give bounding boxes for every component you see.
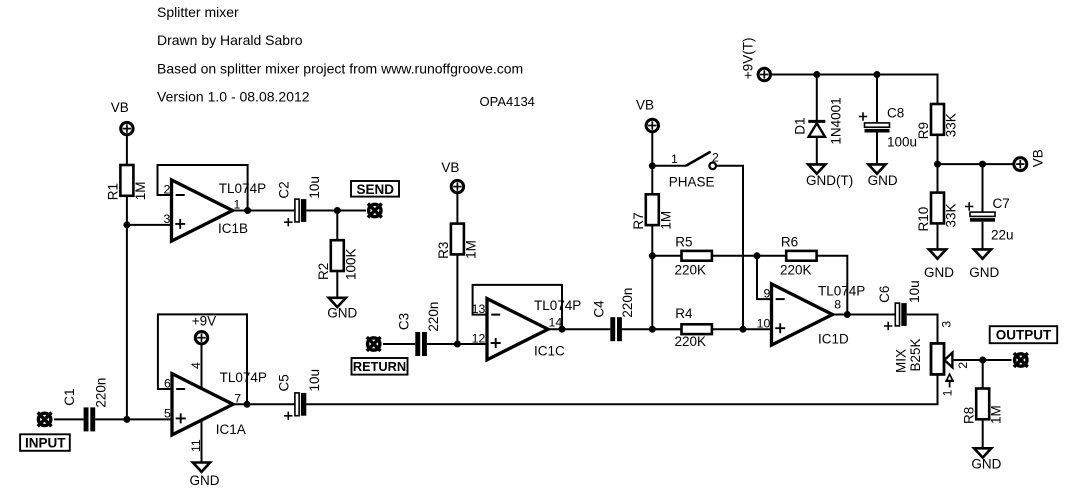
svg-text:+9V(T): +9V(T) xyxy=(741,38,756,80)
svg-text:SEND: SEND xyxy=(356,182,394,197)
plus mark C5 xyxy=(284,412,292,420)
svg-text:TL074P: TL074P xyxy=(219,181,266,196)
ground (C8) xyxy=(868,164,885,173)
svg-text:10u: 10u xyxy=(307,176,322,199)
svg-text:100u: 100u xyxy=(887,134,917,149)
wire R1 bottom to node xyxy=(126,196,128,225)
svg-text:2: 2 xyxy=(956,362,970,369)
wire IC1B output xyxy=(233,210,297,212)
junction R9/R10/VB xyxy=(934,161,941,168)
wire IC1C output to C4 xyxy=(548,328,610,330)
svg-text:GND: GND xyxy=(969,265,999,280)
wire to switch pin 1 xyxy=(652,165,686,167)
svg-text:Based on splitter mixer projec: Based on splitter mixer project from www… xyxy=(157,61,523,77)
wire IC1B feedback loop xyxy=(158,165,248,211)
junction IC1C output xyxy=(559,326,566,333)
svg-text:33K: 33K xyxy=(944,203,959,227)
capacitor C5 xyxy=(295,393,306,416)
resistor R9 xyxy=(931,104,944,135)
svg-text:10u: 10u xyxy=(307,369,322,392)
junction IC1B output xyxy=(244,207,251,214)
wire R4 to IC1D pin 10 xyxy=(712,328,773,330)
wire R9 to VB node xyxy=(937,135,939,164)
svg-text:1M: 1M xyxy=(989,405,1004,424)
svg-text:C8: C8 xyxy=(887,106,904,121)
potentiometer MIX B25K xyxy=(931,343,944,374)
svg-text:1: 1 xyxy=(671,152,678,166)
power +9V (IC1A pin 4) xyxy=(195,332,207,344)
svg-text:R6: R6 xyxy=(781,234,798,249)
svg-text:5: 5 xyxy=(164,407,171,421)
power +9V(T) xyxy=(758,68,770,80)
wire C1 to IC1A pin 5 xyxy=(95,418,172,420)
power VB (phase column) xyxy=(646,119,658,131)
resistor R2 xyxy=(331,240,344,271)
wire VB node to R10 xyxy=(937,164,939,193)
junction C4/R4/VB column xyxy=(649,326,656,333)
label box RETURN xyxy=(352,358,408,375)
svg-text:220K: 220K xyxy=(675,334,707,349)
junction VB/switch/R7 xyxy=(649,162,656,169)
wire R2 to ground xyxy=(336,271,338,298)
switch PHASE lever xyxy=(686,152,711,166)
power VB (R1 top) xyxy=(121,122,133,134)
wire +9V to pin 4 xyxy=(201,344,203,389)
label box INPUT xyxy=(20,434,70,451)
plus mark C8 xyxy=(859,112,867,120)
wire IC1A feedback loop xyxy=(158,314,247,404)
capacitor C4 xyxy=(610,317,622,341)
wire to R5 xyxy=(652,255,681,257)
resistor R7 xyxy=(646,194,659,225)
svg-text:TL074P: TL074P xyxy=(818,283,865,298)
minus input glyph IC1B xyxy=(176,194,185,196)
junction R5/R6/pin9 xyxy=(754,252,761,259)
capacitor C8 xyxy=(865,123,890,133)
wire switch node to R7 xyxy=(651,166,653,195)
power VB (output) xyxy=(1014,158,1027,171)
diode D1 1N4001 xyxy=(808,121,825,136)
svg-text:C4: C4 xyxy=(592,300,607,318)
wire R5 node down to R4 node xyxy=(651,256,653,329)
svg-text:GND: GND xyxy=(924,265,954,280)
wire pin9 node to IC1D pin 9 xyxy=(757,256,773,299)
ground (IC1A) xyxy=(193,463,210,472)
wire VB to R1 xyxy=(126,135,128,165)
svg-text:GND: GND xyxy=(190,473,220,488)
svg-text:R2: R2 xyxy=(316,263,331,280)
svg-text:Version 1.0 - 08.08.2012: Version 1.0 - 08.08.2012 xyxy=(157,88,310,104)
svg-text:C1: C1 xyxy=(62,389,77,406)
wire VB down to switch node xyxy=(651,132,653,166)
op-amp IC1B xyxy=(172,180,233,241)
wire IC1C feedback loop xyxy=(473,285,562,329)
wire C4 to R4 node xyxy=(622,328,682,330)
svg-text:IC1C: IC1C xyxy=(534,343,565,358)
svg-text:1M: 1M xyxy=(658,211,673,230)
ground (C7) xyxy=(974,249,991,258)
wire C3 to IC1C pin 12 xyxy=(427,343,488,345)
wiper arrow (MIX) xyxy=(944,353,952,368)
svg-text:220K: 220K xyxy=(675,262,707,277)
svg-text:R9: R9 xyxy=(916,122,931,139)
wire R10 to ground xyxy=(937,223,939,249)
plus input glyph IC1C xyxy=(491,338,501,348)
svg-text:R5: R5 xyxy=(675,234,692,249)
plus input glyph IC1A xyxy=(176,413,186,423)
wire R7 to R5 node xyxy=(651,225,653,256)
svg-text:13: 13 xyxy=(472,302,486,316)
svg-text:9: 9 xyxy=(763,287,770,301)
op-amp IC1A xyxy=(172,374,233,435)
wire R5 to pin9 node xyxy=(712,255,786,257)
svg-text:R8: R8 xyxy=(961,407,976,424)
jack SEND xyxy=(368,204,382,218)
wire +9V rail xyxy=(770,75,937,105)
power VB (R3 top) xyxy=(451,180,463,192)
minus input glyph IC1A xyxy=(176,388,185,390)
svg-text:GND: GND xyxy=(868,173,898,188)
svg-text:+9V: +9V xyxy=(192,314,216,329)
label box OUTPUT xyxy=(990,326,1057,343)
minus input glyph IC1D xyxy=(776,298,785,300)
junction R3/C3/pin12 xyxy=(454,341,461,348)
jack OUTPUT xyxy=(1014,353,1028,367)
svg-text:220K: 220K xyxy=(780,262,812,277)
svg-text:PHASE: PHASE xyxy=(669,174,715,189)
wire RETURN jack to C3 xyxy=(383,343,415,345)
wire C2 to SEND xyxy=(306,210,366,212)
ground (R2) xyxy=(329,298,346,307)
svg-text:1: 1 xyxy=(940,389,954,396)
wire IC1A output xyxy=(233,403,295,405)
wire IC1D output xyxy=(833,314,896,316)
svg-text:R7: R7 xyxy=(631,212,646,229)
svg-text:GND(T): GND(T) xyxy=(806,173,853,188)
junction node R1/pin3 xyxy=(123,221,130,228)
wire C8 to ground xyxy=(876,133,878,165)
wire wiper to OUTPUT xyxy=(952,359,1011,361)
svg-text:Splitter mixer: Splitter mixer xyxy=(157,4,239,20)
wire C7 tap down xyxy=(982,164,984,212)
wire VB to R3 xyxy=(456,193,458,224)
junction C7 tap xyxy=(979,161,986,168)
junction R7/R5 xyxy=(649,252,656,259)
minus input glyph IC1C xyxy=(491,314,500,316)
svg-text:Drawn by Harald Sabro: Drawn by Harald Sabro xyxy=(157,32,303,48)
wire node to IC1B pin 3 xyxy=(127,224,173,226)
junction IC1A output xyxy=(244,401,251,408)
junction IC1D output/R6 xyxy=(844,311,851,318)
svg-text:OUTPUT: OUTPUT xyxy=(996,328,1052,343)
svg-text:3: 3 xyxy=(163,212,170,226)
wire INPUT jack to C1 xyxy=(54,418,84,420)
svg-text:10: 10 xyxy=(757,316,771,330)
svg-text:INPUT: INPUT xyxy=(25,436,66,451)
resistor R8 xyxy=(976,389,989,420)
svg-text:VB: VB xyxy=(441,160,459,175)
svg-text:3: 3 xyxy=(940,321,954,328)
wire rail to D1 xyxy=(816,75,818,122)
wire switch pin 2 to inverting net xyxy=(716,166,743,329)
junction wiper/R8/OUTPUT xyxy=(979,357,986,364)
svg-text:VB: VB xyxy=(636,98,654,113)
label box SEND xyxy=(351,181,399,197)
svg-text:R3: R3 xyxy=(436,242,451,259)
junction rail/C8 xyxy=(874,71,881,78)
capacitor C2 xyxy=(295,199,306,222)
wire R6 to IC1D output xyxy=(817,256,848,315)
svg-text:VB: VB xyxy=(111,100,129,115)
resistor R10 xyxy=(931,193,944,224)
capacitor C6 xyxy=(895,303,906,326)
resistor R4 xyxy=(682,324,712,334)
resistor R6 xyxy=(786,251,816,261)
jack RETURN xyxy=(367,337,381,351)
wire node down to input row xyxy=(126,225,128,420)
wire R8 to ground xyxy=(982,419,984,448)
plus mark C6 xyxy=(884,322,892,330)
wire R4 row xyxy=(652,328,681,330)
svg-text:B25K: B25K xyxy=(908,338,923,371)
svg-text:C6: C6 xyxy=(877,286,892,303)
plus input glyph IC1B xyxy=(175,219,185,229)
svg-text:100K: 100K xyxy=(343,248,358,280)
plus mark C2 xyxy=(284,218,292,226)
op-amp IC1D xyxy=(772,284,833,345)
wire D1 to ground xyxy=(816,137,818,165)
ground GND(T) xyxy=(808,164,825,173)
svg-text:TL074P: TL074P xyxy=(220,370,267,385)
svg-text:8: 8 xyxy=(834,298,841,312)
plus input glyph IC1D xyxy=(775,323,785,333)
svg-text:4: 4 xyxy=(189,362,203,369)
svg-text:1: 1 xyxy=(234,197,241,211)
junction rail/D1 xyxy=(813,71,820,78)
svg-text:MIX: MIX xyxy=(893,349,908,373)
junction switch net/R4/pin10 xyxy=(740,326,747,333)
capacitor C1 xyxy=(84,407,96,431)
wire OUTPUT node to R8 xyxy=(982,360,984,389)
capacitor C7 xyxy=(970,212,995,222)
ground (R8) xyxy=(974,448,991,457)
switch PHASE pin 2 contact xyxy=(709,163,716,170)
wire VB row xyxy=(938,163,1015,165)
resistor R5 xyxy=(682,251,712,261)
svg-text:2: 2 xyxy=(163,182,170,196)
wire rail to C8 xyxy=(876,75,878,123)
svg-text:33K: 33K xyxy=(944,113,959,137)
svg-text:1M: 1M xyxy=(463,240,478,259)
svg-text:6: 6 xyxy=(164,376,171,390)
wire pin 11 to ground xyxy=(201,420,203,463)
svg-text:VB: VB xyxy=(1031,149,1046,167)
jack INPUT xyxy=(38,413,52,427)
svg-text:IC1A: IC1A xyxy=(216,422,246,437)
plus mark C7 xyxy=(965,202,973,210)
svg-text:220n: 220n xyxy=(620,288,635,318)
svg-text:GND: GND xyxy=(971,456,1001,471)
svg-text:220n: 220n xyxy=(94,378,109,408)
svg-text:C3: C3 xyxy=(396,313,411,330)
svg-text:IC1B: IC1B xyxy=(218,221,248,236)
wire C5 to mix pot (long bottom rail) xyxy=(306,374,937,404)
wire node to R2 xyxy=(336,211,338,241)
svg-text:OPA4134: OPA4134 xyxy=(480,94,535,109)
svg-text:12: 12 xyxy=(472,331,486,345)
svg-text:C7: C7 xyxy=(993,196,1010,211)
svg-text:10u: 10u xyxy=(907,280,922,303)
svg-text:IC1D: IC1D xyxy=(818,331,849,346)
capacitor C3 xyxy=(415,332,427,356)
resistor R3 xyxy=(451,224,464,255)
svg-text:22u: 22u xyxy=(991,228,1014,243)
junction C2/R2/SEND xyxy=(334,207,341,214)
svg-text:11: 11 xyxy=(189,439,203,452)
svg-text:GND: GND xyxy=(327,306,357,321)
svg-text:220n: 220n xyxy=(426,302,441,332)
adjustment arrow (MIX) xyxy=(945,374,954,387)
svg-text:D1: D1 xyxy=(793,118,808,135)
svg-text:C5: C5 xyxy=(277,374,292,391)
wire C7 to ground xyxy=(982,222,984,250)
svg-text:1M: 1M xyxy=(133,182,148,201)
svg-text:C2: C2 xyxy=(277,181,292,198)
wire R3 to pin12 node xyxy=(456,254,458,344)
svg-text:R10: R10 xyxy=(916,207,931,232)
svg-text:2: 2 xyxy=(712,150,719,164)
resistor R1 xyxy=(120,165,133,196)
svg-text:RETURN: RETURN xyxy=(353,359,406,374)
svg-text:1N4001: 1N4001 xyxy=(829,97,844,144)
svg-text:R4: R4 xyxy=(675,306,693,321)
svg-text:TL074P: TL074P xyxy=(534,298,581,313)
op-amp IC1C xyxy=(487,299,548,360)
junction C1/pin5 node xyxy=(123,416,130,423)
svg-text:R1: R1 xyxy=(106,183,121,200)
ground (R10) xyxy=(929,249,946,258)
wire C6 to MIX pot xyxy=(907,315,938,344)
